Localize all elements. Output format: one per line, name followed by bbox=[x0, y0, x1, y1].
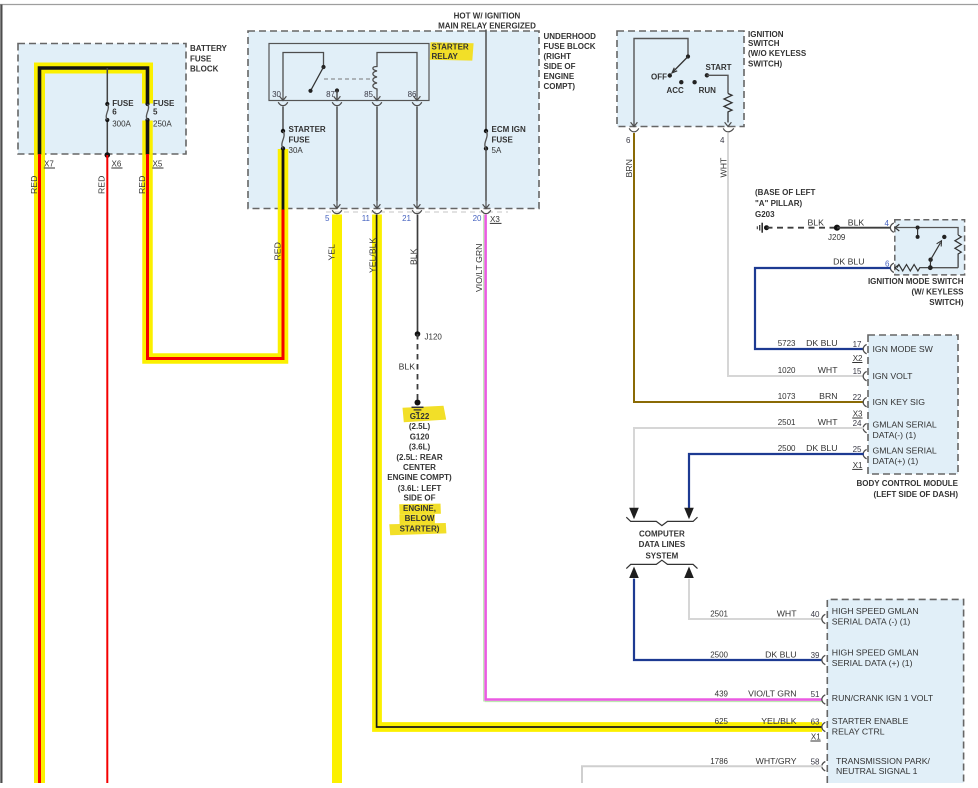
wire: hot feed down to ECM IGN fuse bbox=[485, 30, 487, 130]
resistor R3 (mode switch horizontal) bbox=[897, 265, 930, 271]
label: G122 / G120 ground description bbox=[387, 412, 452, 533]
svg-text:G203: G203 bbox=[755, 210, 775, 219]
wire labels row: 1786 WHT/GRY 58 bbox=[710, 756, 820, 767]
svg-text:(LEFT SIDE OF DASH): (LEFT SIDE OF DASH) bbox=[874, 490, 959, 499]
BCM pin cups 17 15 22 24 25 bbox=[863, 344, 866, 458]
svg-text:GMLAN SERIAL: GMLAN SERIAL bbox=[873, 446, 937, 456]
data lines bottom arrowhead (DK BLU) bbox=[629, 567, 639, 579]
ignition mode switch bottom conductor bbox=[930, 267, 958, 269]
relay coil 85-86 bbox=[373, 53, 417, 92]
contact START bbox=[705, 73, 709, 77]
label: BATTERY FUSE BLOCK bbox=[190, 44, 228, 74]
computer data lines top brace bbox=[626, 517, 697, 525]
svg-text:BRN: BRN bbox=[624, 159, 634, 177]
svg-text:(3.6L: LEFT: (3.6L: LEFT bbox=[398, 484, 442, 493]
label: FUSE 6 300A bbox=[112, 99, 134, 128]
svg-text:NEUTRAL SIGNAL 1: NEUTRAL SIGNAL 1 bbox=[836, 766, 918, 776]
svg-text:(W/ KEYLESS: (W/ KEYLESS bbox=[911, 288, 964, 297]
body control module box bbox=[868, 335, 958, 474]
svg-text:87: 87 bbox=[326, 90, 335, 99]
svg-text:IGNITION: IGNITION bbox=[748, 30, 784, 39]
svg-text:YEL/BLK: YEL/BLK bbox=[761, 716, 796, 726]
marker highlight: BELOW bbox=[399, 514, 435, 524]
svg-text:DK BLU: DK BLU bbox=[833, 257, 864, 267]
wire highlight band: battery X5 to starter fuse bbox=[148, 121, 284, 359]
node label X6 bbox=[111, 159, 122, 168]
svg-text:STARTER: STARTER bbox=[432, 43, 469, 52]
node: splice J209 bbox=[834, 225, 840, 231]
svg-text:STARTER: STARTER bbox=[289, 125, 326, 134]
svg-text:24: 24 bbox=[853, 419, 862, 428]
fuse F5 250A symbol bbox=[145, 102, 149, 122]
ignition mode switch top conductor bbox=[896, 228, 959, 236]
svg-text:FUSE BLOCK: FUSE BLOCK bbox=[544, 42, 596, 51]
data lines top arrowhead (DK BLU) bbox=[684, 508, 694, 520]
wire: battery fuse block thick black bus bbox=[40, 68, 148, 155]
underhood fuse block box bbox=[248, 31, 539, 209]
svg-text:40: 40 bbox=[811, 610, 820, 619]
svg-text:DATA LINES: DATA LINES bbox=[639, 540, 686, 549]
wire: DK BLU 2500 data lines to ECM pin 39 bbox=[634, 579, 823, 660]
frame left rule bbox=[0, 5, 2, 784]
ECM pin function labels bbox=[832, 606, 934, 776]
svg-text:X7: X7 bbox=[44, 159, 54, 168]
svg-text:39: 39 bbox=[811, 651, 820, 660]
svg-text:IGN VOLT: IGN VOLT bbox=[873, 371, 914, 381]
wire: WHT 1020 ignition switch pin 4 to BCM pin 15 bbox=[728, 133, 864, 376]
svg-text:1020: 1020 bbox=[778, 366, 796, 375]
svg-text:WHT: WHT bbox=[719, 157, 729, 177]
wire highlight band: battery feed X7 bbox=[40, 68, 148, 783]
wire: starter fuse output black segment bbox=[282, 149, 285, 210]
svg-text:11: 11 bbox=[362, 214, 371, 223]
wire: VIO/LT GRN pin 20 to ECM pin 51 bbox=[486, 215, 823, 700]
svg-text:J120: J120 bbox=[425, 333, 443, 342]
wire: ECM IGN fuse down to pin 20 bbox=[485, 149, 487, 201]
svg-text:IGN MODE SW: IGN MODE SW bbox=[873, 344, 934, 354]
svg-text:WHT: WHT bbox=[818, 417, 838, 427]
svg-text:DATA(+) (1): DATA(+) (1) bbox=[873, 456, 919, 466]
svg-text:21: 21 bbox=[402, 214, 411, 223]
wire labels row: 2500 DK BLU 25 bbox=[778, 443, 862, 454]
wire: DK BLU 5723 mode switch pin 6 to BCM pin 17 bbox=[755, 268, 891, 349]
svg-text:ENGINE COMPT): ENGINE COMPT) bbox=[387, 473, 452, 482]
svg-text:30A: 30A bbox=[289, 146, 304, 155]
svg-text:WHT: WHT bbox=[818, 365, 838, 375]
svg-text:(W/O KEYLESS: (W/O KEYLESS bbox=[748, 49, 807, 58]
ignition mode switch pin 6 cup bbox=[890, 263, 893, 272]
svg-text:X1: X1 bbox=[811, 733, 821, 742]
svg-text:RED: RED bbox=[29, 176, 39, 194]
svg-text:5723: 5723 bbox=[778, 339, 796, 348]
wire: BRN 1073 ignition switch pin 6 to BCM pin 22 bbox=[634, 133, 864, 402]
svg-text:2500: 2500 bbox=[710, 650, 728, 659]
connector X3 dashed line under underhood fuse block bbox=[326, 211, 508, 213]
svg-text:G122: G122 bbox=[410, 412, 430, 421]
svg-text:X5: X5 bbox=[153, 159, 163, 168]
svg-text:ACC: ACC bbox=[667, 86, 685, 95]
frame top rule bbox=[0, 4, 978, 6]
svg-text:439: 439 bbox=[715, 689, 729, 698]
svg-text:(3.6L): (3.6L) bbox=[409, 443, 431, 452]
svg-text:X2: X2 bbox=[853, 354, 863, 363]
svg-text:SWITCH): SWITCH) bbox=[929, 298, 964, 307]
svg-text:1073: 1073 bbox=[778, 392, 796, 401]
node label X3 bbox=[490, 215, 502, 224]
wire: BLK dashed G203 to J209 bbox=[767, 227, 837, 229]
svg-text:J209: J209 bbox=[828, 233, 846, 242]
ECM IGN fuse 5A symbol bbox=[484, 129, 488, 151]
computer data lines bottom brace bbox=[626, 560, 697, 568]
svg-text:ENGINE: ENGINE bbox=[544, 72, 575, 81]
svg-text:15: 15 bbox=[853, 367, 862, 376]
svg-text:FUSE: FUSE bbox=[289, 135, 311, 144]
svg-text:COMPT): COMPT) bbox=[544, 82, 576, 91]
ignition switch exit cups bbox=[629, 128, 734, 131]
svg-text:(2.5L): (2.5L) bbox=[409, 422, 431, 431]
svg-text:1786: 1786 bbox=[710, 757, 728, 766]
wire: LT GRN stripe bbox=[484, 215, 823, 702]
BCM pin function labels bbox=[873, 344, 937, 466]
svg-text:DATA(-) (1): DATA(-) (1) bbox=[873, 430, 917, 440]
svg-text:GMLAN SERIAL: GMLAN SERIAL bbox=[873, 420, 937, 430]
svg-text:SIDE OF: SIDE OF bbox=[544, 62, 576, 71]
wire: YEL/BLK core pin 11 to ECM pin 63 bbox=[377, 215, 822, 728]
wire: BLK pin 21 to J120 bbox=[417, 215, 419, 334]
svg-text:STARTER ENABLE: STARTER ENABLE bbox=[832, 716, 909, 726]
svg-text:DK BLU: DK BLU bbox=[806, 443, 837, 453]
wire: RED X6 bbox=[106, 155, 108, 783]
svg-text:CENTER: CENTER bbox=[403, 463, 436, 472]
label: UNDERHOOD FUSE BLOCK (RIGHT SIDE OF ENGINE COMPT) bbox=[544, 32, 597, 91]
underhood block bottom arrowheads pins 5 11 21 20 bbox=[334, 200, 490, 209]
svg-text:25: 25 bbox=[853, 445, 862, 454]
node label X2 bbox=[852, 354, 863, 363]
wire labels row: 5723 DK BLU 17 bbox=[778, 338, 862, 349]
ignition mode switch arm bbox=[928, 235, 947, 270]
wire: WHT 2501 BCM pin 24 to data lines bbox=[634, 428, 864, 508]
wire: WHT/GRY 1786 to ECM pin 58 bbox=[582, 766, 823, 783]
svg-text:DK BLU: DK BLU bbox=[806, 338, 837, 348]
svg-text:RELAY: RELAY bbox=[432, 52, 459, 61]
svg-text:SIDE OF: SIDE OF bbox=[403, 494, 435, 503]
wire labels row: 625 YEL/BLK 63 bbox=[715, 716, 820, 727]
data lines bottom arrowhead (WHT) bbox=[684, 567, 694, 579]
label: IGNITION MODE SWITCH (W/ KEYLESS SWITCH) bbox=[868, 277, 964, 307]
label: (BASE OF LEFT "A" PILLAR) G203 bbox=[755, 188, 816, 219]
svg-text:RUN/CRANK IGN 1 VOLT: RUN/CRANK IGN 1 VOLT bbox=[832, 693, 934, 703]
ignition switch exit arrowheads pins 6 and 4 bbox=[631, 122, 732, 126]
svg-text:2500: 2500 bbox=[778, 444, 796, 453]
svg-text:BODY CONTROL MODULE: BODY CONTROL MODULE bbox=[857, 479, 959, 488]
svg-text:17: 17 bbox=[853, 340, 862, 349]
ignition mode switch tap contacts bbox=[916, 226, 920, 239]
wire: START to resistor bbox=[707, 75, 728, 93]
svg-text:IGNITION MODE SWITCH: IGNITION MODE SWITCH bbox=[868, 277, 964, 286]
node: X6 junction dot bbox=[105, 152, 111, 158]
node label X1 (BCM) bbox=[852, 461, 863, 470]
svg-text:RED: RED bbox=[97, 176, 107, 194]
svg-text:IGN KEY SIG: IGN KEY SIG bbox=[873, 397, 926, 407]
label: BODY CONTROL MODULE (LEFT SIDE OF DASH) bbox=[857, 479, 959, 499]
svg-text:86: 86 bbox=[408, 90, 417, 99]
svg-text:STARTER): STARTER) bbox=[400, 524, 440, 533]
relay mechanical link (dashed) bbox=[324, 78, 372, 80]
node label X5 bbox=[152, 159, 163, 168]
label: ECM IGN FUSE 5A bbox=[492, 125, 526, 155]
wire: relay pin 86 down to pin 21 bbox=[416, 107, 418, 201]
marker highlight: G122 bbox=[403, 406, 447, 422]
svg-text:OFF: OFF bbox=[651, 73, 667, 82]
svg-text:5: 5 bbox=[325, 214, 330, 223]
svg-text:COMPUTER: COMPUTER bbox=[639, 529, 685, 538]
wire: relay pin 85 down to pin 11 bbox=[376, 107, 378, 201]
relay switch contact 30-87 bbox=[283, 53, 339, 101]
svg-text:85: 85 bbox=[364, 90, 373, 99]
wire labels row: 2501 WHT 24 bbox=[778, 417, 862, 428]
svg-text:20: 20 bbox=[473, 214, 482, 223]
ground G203 symbol bbox=[757, 223, 769, 233]
wire labels row: 1020 WHT 15 bbox=[778, 365, 862, 376]
svg-text:BRN: BRN bbox=[819, 391, 837, 401]
relay pin stubs and arrowheads into block bbox=[280, 91, 421, 101]
svg-text:BLOCK: BLOCK bbox=[190, 65, 219, 74]
svg-text:RED: RED bbox=[273, 242, 283, 260]
svg-text:ENGINE,: ENGINE, bbox=[403, 504, 436, 513]
svg-text:VIO/LT GRN: VIO/LT GRN bbox=[748, 688, 796, 698]
label: IGNITION SWITCH (W/O KEYLESS SWITCH) bbox=[748, 30, 807, 69]
wire: fuse 6 tap (black, in battery block) bbox=[106, 68, 108, 155]
svg-text:FUSE: FUSE bbox=[492, 135, 514, 144]
starter fuse 30A symbol bbox=[281, 129, 285, 151]
svg-text:2501: 2501 bbox=[778, 418, 796, 427]
ignition mode switch pin 6 arrowhead bbox=[895, 264, 899, 271]
ignition switch rotor arm bbox=[672, 54, 690, 73]
svg-text:X3: X3 bbox=[853, 410, 863, 419]
svg-text:X3: X3 bbox=[490, 215, 500, 224]
marker highlight: ENGINE, bbox=[399, 504, 441, 515]
node label X3 (BCM) bbox=[852, 410, 863, 419]
marker highlight: STARTER) bbox=[389, 523, 446, 535]
contact RUN bbox=[692, 80, 696, 84]
wire labels row: 1073 BRN 22 bbox=[778, 391, 862, 402]
wire labels row: 2500 DK BLU 39 bbox=[710, 649, 820, 660]
ignition mode switch pin 4 cup bbox=[890, 223, 893, 232]
svg-text:BLK: BLK bbox=[399, 362, 416, 372]
svg-text:FUSE: FUSE bbox=[153, 99, 175, 108]
contact ACC bbox=[679, 80, 683, 84]
svg-text:(BASE OF LEFT: (BASE OF LEFT bbox=[755, 188, 816, 197]
starter relay box U1 bbox=[269, 44, 429, 101]
label: STARTER FUSE 30A bbox=[289, 125, 326, 155]
node label X7 bbox=[44, 159, 55, 168]
wire: BLK dashed to ground bbox=[417, 334, 419, 400]
svg-text:SERIAL DATA (+) (1): SERIAL DATA (+) (1) bbox=[832, 658, 913, 668]
resistor R2 (mode switch vertical) bbox=[955, 235, 961, 268]
svg-text:FUSE: FUSE bbox=[190, 54, 212, 63]
label: FUSE 5 250A bbox=[153, 99, 175, 128]
wire highlight band: YEL wire pin 5 bbox=[332, 215, 342, 784]
ignition mode switch pin 4 arrowhead bbox=[895, 224, 899, 231]
title: HOT W/ IGNITION MAIN RELAY ENERGIZED bbox=[438, 11, 536, 30]
fuse F6 300A symbol bbox=[105, 102, 109, 122]
svg-text:HIGH SPEED GMLAN: HIGH SPEED GMLAN bbox=[832, 606, 919, 616]
svg-text:BLK: BLK bbox=[848, 217, 865, 227]
svg-text:625: 625 bbox=[715, 717, 729, 726]
ignition switch internal wire pin 6 riser bbox=[634, 39, 688, 127]
svg-text:4: 4 bbox=[720, 136, 725, 145]
svg-text:250A: 250A bbox=[153, 119, 172, 128]
wire labels row: 2501 WHT 40 bbox=[710, 608, 820, 619]
engine control module box bbox=[827, 599, 963, 783]
relay pin cups below relay bbox=[278, 102, 422, 105]
wire: WHT 2501 data lines to ECM pin 40 bbox=[689, 579, 823, 619]
svg-text:5A: 5A bbox=[492, 146, 502, 155]
svg-text:RED: RED bbox=[137, 176, 147, 194]
svg-text:2501: 2501 bbox=[710, 609, 728, 618]
battery fuse block box bbox=[18, 44, 186, 155]
data lines top arrowhead (WHT) bbox=[629, 508, 639, 520]
svg-text:5: 5 bbox=[153, 108, 158, 117]
svg-text:X6: X6 bbox=[112, 159, 122, 168]
svg-text:DK BLU: DK BLU bbox=[765, 649, 796, 659]
underhood block bottom cups bbox=[332, 210, 491, 213]
wire highlight band: YEL/BLK wire pin 11 to pin 63 bbox=[377, 215, 822, 728]
svg-text:WHT/GRY: WHT/GRY bbox=[756, 756, 797, 766]
label highlight: STARTER RELAY bbox=[430, 42, 474, 60]
svg-text:SERIAL DATA (-) (1): SERIAL DATA (-) (1) bbox=[832, 617, 911, 627]
ignition mode switch box bbox=[895, 220, 965, 275]
wire: BLK J209 to ignition mode switch pin 4 bbox=[837, 227, 891, 229]
ground G122/G120 symbol bbox=[412, 400, 424, 413]
node: splice J120 bbox=[415, 331, 421, 337]
svg-text:YEL: YEL bbox=[327, 244, 337, 261]
svg-text:HIGH SPEED GMLAN: HIGH SPEED GMLAN bbox=[832, 648, 919, 658]
svg-text:TRANSMISSION PARK/: TRANSMISSION PARK/ bbox=[836, 756, 931, 766]
svg-text:"A" PILLAR): "A" PILLAR) bbox=[755, 199, 802, 208]
wire: relay pin 30 to starter fuse bbox=[282, 107, 284, 130]
svg-text:WHT: WHT bbox=[777, 608, 797, 618]
svg-text:BATTERY: BATTERY bbox=[190, 44, 228, 53]
label: COMPUTER DATA LINES SYSTEM bbox=[639, 529, 686, 560]
node label X1 (ECM) bbox=[810, 733, 821, 742]
svg-text:300A: 300A bbox=[112, 119, 131, 128]
svg-text:SYSTEM: SYSTEM bbox=[645, 551, 678, 560]
svg-text:BELOW: BELOW bbox=[405, 514, 435, 523]
svg-text:(2.5L: REAR: (2.5L: REAR bbox=[396, 453, 442, 462]
label: STARTER RELAY bbox=[432, 43, 469, 62]
wire labels row: 439 VIO/LT GRN 51 bbox=[715, 688, 820, 699]
svg-text:51: 51 bbox=[811, 690, 820, 699]
svg-text:6: 6 bbox=[626, 136, 631, 145]
svg-text:(RIGHT: (RIGHT bbox=[544, 52, 572, 61]
wire: RED X7 feed bbox=[38, 154, 41, 783]
wire: RED X5 run to starter fuse bbox=[148, 154, 284, 359]
svg-text:X1: X1 bbox=[853, 461, 863, 470]
svg-text:ECM IGN: ECM IGN bbox=[492, 125, 526, 134]
svg-text:RELAY CTRL: RELAY CTRL bbox=[832, 727, 885, 737]
svg-text:FUSE: FUSE bbox=[112, 99, 134, 108]
svg-text:UNDERHOOD: UNDERHOOD bbox=[544, 32, 597, 41]
svg-text:HOT W/ IGNITION: HOT W/ IGNITION bbox=[454, 11, 521, 20]
svg-text:22: 22 bbox=[853, 393, 862, 402]
svg-text:START: START bbox=[706, 63, 732, 72]
svg-text:SWITCH: SWITCH bbox=[748, 39, 780, 48]
svg-text:58: 58 bbox=[811, 757, 820, 766]
wire: relay pin 87 down to pin 5 bbox=[336, 107, 338, 201]
svg-text:RUN: RUN bbox=[699, 86, 717, 95]
svg-text:63: 63 bbox=[811, 718, 820, 727]
svg-text:BLK: BLK bbox=[808, 217, 825, 227]
contact OFF bbox=[668, 73, 672, 77]
svg-text:G120: G120 bbox=[410, 432, 430, 441]
svg-text:VIO/LT GRN: VIO/LT GRN bbox=[474, 244, 484, 292]
svg-text:MAIN RELAY ENERGIZED: MAIN RELAY ENERGIZED bbox=[438, 22, 536, 31]
svg-text:30: 30 bbox=[272, 90, 281, 99]
wire: DK BLU 2500 BCM pin 25 to data lines bbox=[689, 454, 864, 508]
ECM pin cups 40 39 51 63 58 bbox=[822, 614, 825, 771]
svg-text:SWITCH): SWITCH) bbox=[748, 60, 783, 69]
svg-text:4: 4 bbox=[885, 219, 890, 228]
resistor R1 (key-in resistor) bbox=[724, 94, 732, 123]
ignition switch box bbox=[617, 31, 744, 127]
svg-text:6: 6 bbox=[112, 108, 117, 117]
